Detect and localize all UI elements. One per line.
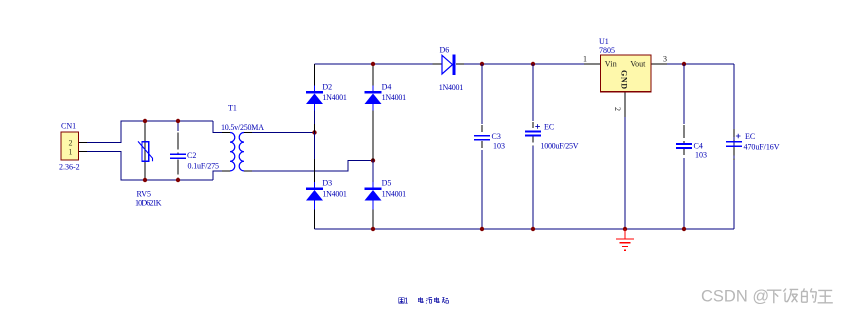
svg-text:1N4001: 1N4001: [382, 189, 407, 198]
junction top rail D4: [371, 62, 375, 66]
electrolytic capacitor EC 470uF: [726, 129, 780, 160]
wire primary top rail drop to transformer: [213, 121, 222, 133]
svg-text:103: 103: [695, 151, 707, 160]
junction RV5 top: [143, 119, 147, 123]
junction C2 top: [176, 119, 180, 123]
svg-text:D5: D5: [382, 179, 392, 188]
svg-text:CSDN @: CSDN @: [701, 288, 769, 306]
wire secondary bottom to bridge right (step): [252, 161, 373, 171]
caption 图1 电源电路: [399, 297, 449, 303]
capacitor C4: [676, 64, 707, 229]
junction RV5 bottom: [143, 178, 147, 182]
junction C2 bottom: [176, 178, 180, 182]
watermark CSDN: [701, 288, 769, 306]
diode D4: [364, 83, 406, 105]
wire CN1 pin2 to primary top rail: [87, 121, 213, 143]
svg-text:1: 1: [69, 148, 73, 157]
svg-text:1N4001: 1N4001: [322, 93, 347, 102]
wire bridge left vertical: [314, 64, 316, 229]
svg-text:2: 2: [613, 107, 622, 111]
diode D5: [364, 179, 406, 201]
diode D2: [306, 83, 347, 105]
svg-text:1000uF/25V: 1000uF/25V: [541, 142, 579, 151]
CN1 pin 2 stub: [79, 142, 87, 144]
diode D3: [306, 179, 347, 201]
wire U1 pin3 to right edge: [667, 63, 734, 65]
junction top rail C4: [682, 62, 686, 66]
CN1 pin 1 stub: [79, 150, 87, 152]
wire top rail bridge to D6: [315, 63, 433, 65]
svg-text:0.1uF/275: 0.1uF/275: [188, 162, 220, 171]
svg-text:1N4001: 1N4001: [382, 93, 407, 102]
junction bottom rail D5: [371, 227, 375, 231]
svg-text:10D621K: 10D621K: [135, 198, 162, 207]
connector CN1: [59, 122, 80, 172]
svg-text:D2: D2: [322, 83, 332, 92]
svg-text:EC: EC: [745, 132, 755, 141]
junction bridge right input: [371, 158, 375, 162]
wire secondary top to bridge left: [252, 132, 315, 134]
wire right edge vertical: [733, 64, 735, 229]
svg-text:RV5: RV5: [137, 190, 152, 199]
ground symbol: [616, 229, 634, 250]
transformer T1: [221, 104, 264, 171]
svg-text:C2: C2: [187, 151, 196, 160]
junction bottom rail EC: [531, 227, 535, 231]
junction bottom rail C3: [480, 227, 484, 231]
svg-text:CN1: CN1: [61, 122, 76, 131]
svg-text:10.5v/250MA: 10.5v/250MA: [221, 123, 264, 132]
regulator U1 7805: [583, 37, 667, 117]
svg-text:1N4001: 1N4001: [322, 189, 347, 198]
svg-text:C3: C3: [492, 132, 501, 141]
svg-text:GND: GND: [620, 70, 629, 89]
svg-text:1N4001: 1N4001: [439, 83, 464, 92]
svg-text:1: 1: [583, 54, 587, 63]
svg-text:U1: U1: [599, 37, 609, 46]
wire bottom rail: [315, 228, 735, 230]
junction bottom rail C4: [682, 227, 686, 231]
wire bridge right vertical: [372, 64, 374, 229]
junction top rail C3: [480, 62, 484, 66]
wire U1 pin2 down to ground rail: [624, 117, 626, 229]
varistor RV5: [135, 121, 162, 207]
svg-text:D3: D3: [322, 179, 332, 188]
svg-text:2: 2: [69, 138, 73, 147]
svg-text:D4: D4: [382, 83, 392, 92]
capacitor C3: [474, 64, 505, 229]
svg-text:7805: 7805: [599, 46, 615, 55]
wire top rail D6 to U1: [464, 63, 584, 65]
junction bridge left input: [312, 130, 316, 134]
svg-text:C4: C4: [694, 141, 703, 150]
svg-text:Vin: Vin: [605, 60, 617, 69]
svg-text:2.36-2: 2.36-2: [59, 163, 80, 172]
electrolytic capacitor EC 1000uF: [525, 64, 579, 229]
junction bottom rail ground: [623, 227, 627, 231]
svg-text:EC: EC: [544, 123, 554, 132]
capacitor C2: [170, 121, 219, 179]
svg-text:103: 103: [493, 141, 505, 150]
junction top rail EC: [531, 62, 535, 66]
svg-text:Vout: Vout: [630, 60, 646, 69]
svg-text:470uF/16V: 470uF/16V: [744, 143, 780, 152]
wire CN1 pin1 to primary bottom rail: [87, 151, 213, 180]
svg-text:T1: T1: [228, 104, 237, 113]
watermark 下饭的王: [767, 288, 833, 303]
wire primary bottom rail rise to transformer: [213, 171, 222, 180]
diode D6: [432, 46, 464, 93]
svg-text:D6: D6: [440, 46, 450, 55]
svg-text:3: 3: [663, 54, 667, 63]
